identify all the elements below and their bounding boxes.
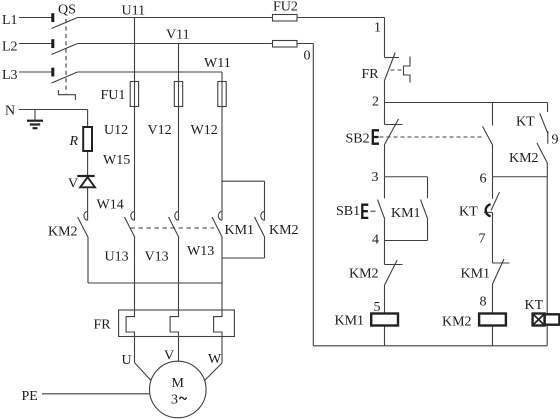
svg-text:7: 7 (479, 232, 486, 247)
svg-text:KM2: KM2 (269, 223, 299, 238)
svg-text:PE: PE (22, 389, 38, 404)
svg-text:KT: KT (516, 114, 535, 129)
svg-text:U: U (122, 353, 132, 368)
svg-text:KM1: KM1 (225, 223, 255, 238)
svg-text:QS: QS (58, 3, 76, 18)
svg-text:N: N (5, 104, 15, 119)
svg-text:KM1: KM1 (461, 267, 491, 282)
svg-text:M: M (172, 376, 185, 391)
svg-text:KM2: KM2 (442, 315, 472, 330)
svg-text:U13: U13 (105, 250, 129, 265)
svg-text:FR: FR (362, 67, 380, 82)
svg-text:KM2: KM2 (48, 225, 78, 240)
svg-text:SB1: SB1 (336, 204, 360, 219)
svg-text:L1: L1 (2, 13, 18, 28)
svg-text:KT: KT (459, 204, 478, 219)
svg-text:W13: W13 (187, 244, 214, 259)
svg-text:5: 5 (374, 300, 381, 315)
svg-text:3: 3 (372, 170, 379, 185)
svg-text:W14: W14 (97, 198, 124, 213)
svg-text:U12: U12 (104, 123, 128, 138)
svg-text:L3: L3 (2, 68, 18, 83)
svg-text:V: V (68, 177, 78, 192)
svg-text:4: 4 (372, 233, 379, 248)
svg-text:V11: V11 (166, 28, 190, 43)
svg-text:9: 9 (552, 133, 559, 148)
svg-text:V12: V12 (148, 123, 172, 138)
svg-text:KT: KT (525, 298, 544, 313)
svg-text:KM1: KM1 (335, 314, 365, 329)
svg-text:U11: U11 (122, 3, 146, 18)
svg-text:2: 2 (372, 95, 379, 110)
svg-text:8: 8 (480, 295, 487, 310)
svg-text:R: R (69, 134, 79, 149)
svg-text:FU2: FU2 (273, 0, 298, 15)
svg-text:W12: W12 (191, 123, 218, 138)
svg-text:W15: W15 (103, 153, 130, 168)
svg-text:FR: FR (94, 318, 112, 333)
svg-text:0: 0 (304, 49, 311, 64)
svg-text:SB2: SB2 (346, 131, 370, 146)
svg-text:W11: W11 (204, 56, 231, 71)
svg-text:1: 1 (374, 20, 381, 35)
svg-text:6: 6 (480, 171, 487, 186)
svg-text:KM2: KM2 (349, 267, 379, 282)
svg-text:KM2: KM2 (509, 151, 539, 166)
svg-text:L2: L2 (2, 40, 18, 55)
svg-text:V13: V13 (145, 250, 169, 265)
svg-text:W: W (208, 352, 222, 367)
svg-text:FU1: FU1 (101, 88, 126, 103)
svg-text:KM1: KM1 (391, 206, 421, 221)
svg-text:V: V (164, 349, 174, 364)
svg-text:3: 3 (171, 393, 178, 408)
